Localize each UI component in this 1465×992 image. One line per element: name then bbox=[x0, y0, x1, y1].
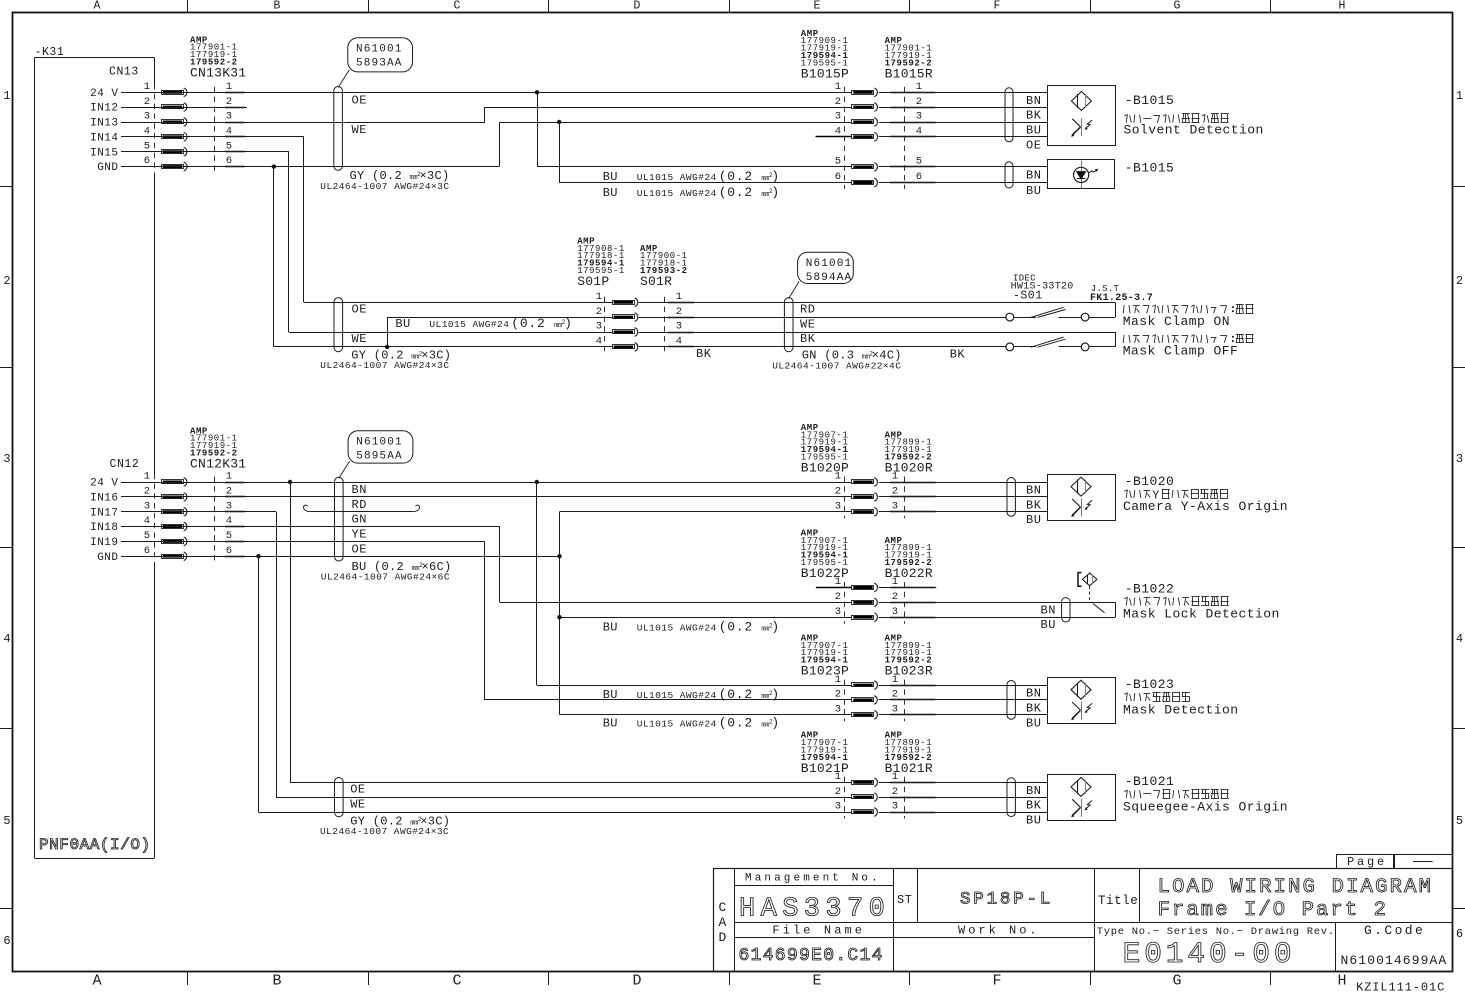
wire IN13 CN13-3 (WE core), jog up to B1015P-2 bbox=[121, 122, 485, 124]
svg-text:F: F bbox=[994, 0, 1001, 13]
svg-text:5: 5 bbox=[144, 530, 150, 542]
svg-text:1: 1 bbox=[226, 471, 232, 483]
wire GND CN13-6 to B1015P-3 via jog up bbox=[121, 166, 499, 168]
svg-text:3: 3 bbox=[835, 111, 841, 123]
svg-text:H: H bbox=[1337, 973, 1346, 990]
svg-text:WE: WE bbox=[800, 317, 815, 331]
wire B1022 BN to proximity switch bbox=[879, 602, 1098, 604]
balloon N61001 5894AA bbox=[789, 282, 799, 299]
wire wrap BK to switch2 bbox=[1089, 346, 1115, 348]
svg-text:FK1.25-3.7: FK1.25-3.7 bbox=[1090, 293, 1153, 304]
svg-text:D: D bbox=[632, 973, 641, 990]
svg-text:-B1023: -B1023 bbox=[1125, 677, 1175, 692]
svg-text:(0.2: (0.2 bbox=[719, 169, 753, 184]
svg-text:6: 6 bbox=[144, 155, 150, 167]
japanese: camera Y axis rough origin detection bbox=[1124, 490, 1127, 492]
svg-text:IN15: IN15 bbox=[90, 147, 118, 159]
svg-text:Management No.: Management No. bbox=[745, 873, 881, 885]
wire B1022P-1 stub bbox=[816, 587, 852, 589]
svg-text:BU: BU bbox=[1041, 618, 1056, 632]
wire GND CN12-6 bbox=[121, 556, 560, 558]
svg-text:UL2464-1007 AWG#24×6C: UL2464-1007 AWG#24×6C bbox=[321, 572, 450, 583]
svg-text:B1015P: B1015P bbox=[801, 66, 849, 81]
svg-text:3: 3 bbox=[676, 321, 682, 333]
svg-text:BK: BK bbox=[800, 332, 816, 346]
svg-text:BU: BU bbox=[1026, 124, 1041, 138]
svg-text:(0.2: (0.2 bbox=[719, 716, 753, 731]
svg-text:-K31: -K31 bbox=[35, 46, 65, 59]
japanese: mask clamp switch release bbox=[1123, 335, 1124, 343]
svg-text:BK: BK bbox=[1026, 702, 1042, 716]
svg-text:OE: OE bbox=[352, 542, 367, 556]
svg-text:RD: RD bbox=[800, 303, 815, 317]
svg-text:3: 3 bbox=[835, 704, 841, 716]
svg-text:3: 3 bbox=[835, 500, 841, 512]
svg-text:(0.2: (0.2 bbox=[719, 687, 753, 702]
svg-text:3: 3 bbox=[226, 111, 232, 123]
svg-text:File Name: File Name bbox=[772, 924, 865, 938]
svg-text:4: 4 bbox=[1456, 632, 1463, 646]
svg-text:UL1015 AWG#24: UL1015 AWG#24 bbox=[637, 188, 717, 199]
svg-text:3: 3 bbox=[3, 452, 10, 466]
title block outline bbox=[714, 869, 1453, 972]
svg-text:): ) bbox=[564, 316, 573, 331]
svg-text:4: 4 bbox=[226, 515, 232, 527]
svg-text:IN13: IN13 bbox=[90, 118, 118, 130]
svg-text:5895AA: 5895AA bbox=[356, 450, 403, 462]
svg-text:2: 2 bbox=[835, 591, 841, 603]
svg-text:-B1021: -B1021 bbox=[1125, 774, 1175, 789]
svg-text:1: 1 bbox=[226, 81, 232, 93]
cable shield oval B1021 right bbox=[1007, 778, 1015, 817]
sensor box B1015 (solvent detection) bbox=[1048, 86, 1116, 146]
title block verticals bbox=[734, 869, 736, 972]
junction 24V branch to B1023P-1 bbox=[535, 480, 539, 484]
svg-text:B1023P: B1023P bbox=[801, 664, 849, 679]
svg-text:6: 6 bbox=[916, 171, 922, 183]
wire IN18 CN12-4 drop to B1022P-2 bbox=[121, 526, 500, 528]
svg-text:HAS3370: HAS3370 bbox=[739, 895, 890, 925]
svg-text:2: 2 bbox=[916, 96, 922, 108]
svg-text:5: 5 bbox=[144, 140, 150, 152]
svg-text:BU: BU bbox=[1026, 716, 1041, 730]
svg-text:6: 6 bbox=[226, 155, 232, 167]
svg-text:F: F bbox=[992, 973, 1001, 990]
svg-text:BK: BK bbox=[1026, 799, 1042, 813]
svg-text:-B1015: -B1015 bbox=[1125, 161, 1175, 176]
wire IN14 CN13-4 drop to S01P-1 bbox=[121, 136, 304, 138]
svg-text:1: 1 bbox=[144, 81, 150, 93]
svg-text:614699E0.C14: 614699E0.C14 bbox=[739, 946, 884, 966]
svg-text:A: A bbox=[94, 0, 101, 13]
svg-text:GN: GN bbox=[352, 513, 367, 527]
svg-text:BN: BN bbox=[1026, 784, 1041, 798]
wire 24V CN13-1 bbox=[121, 92, 852, 94]
svg-text:BU: BU bbox=[603, 170, 618, 184]
svg-text:IN12: IN12 bbox=[90, 103, 118, 115]
svg-text:BK: BK bbox=[950, 347, 966, 361]
svg-text:3: 3 bbox=[835, 606, 841, 618]
wire IN19 CN12-5 drop to B1023P-2 bbox=[121, 541, 484, 543]
svg-text:LOAD WIRING DIAGRAM: LOAD WIRING DIAGRAM bbox=[1158, 876, 1434, 899]
svg-text:OE: OE bbox=[1026, 138, 1041, 152]
svg-text:1: 1 bbox=[3, 89, 10, 103]
svg-text:BU: BU bbox=[395, 317, 410, 331]
japanese: mask clamp switch fixed bbox=[1123, 305, 1124, 313]
svg-text:WE: WE bbox=[350, 797, 365, 811]
svg-text:S01R: S01R bbox=[640, 274, 672, 289]
svg-text:BU: BU bbox=[603, 186, 618, 200]
connector B1020P/R contacts bbox=[844, 477, 846, 519]
wire B1015P-4 OE stub bbox=[816, 136, 852, 138]
svg-text:2: 2 bbox=[835, 486, 841, 498]
svg-text:UL1015 AWG#24: UL1015 AWG#24 bbox=[637, 623, 717, 634]
svg-text:YE: YE bbox=[352, 528, 367, 542]
proximity actuator diamond B1022 bbox=[1078, 573, 1082, 587]
svg-text:N61001: N61001 bbox=[806, 258, 853, 270]
svg-text:2: 2 bbox=[144, 486, 150, 498]
svg-text:1: 1 bbox=[835, 81, 841, 93]
svg-text:4: 4 bbox=[144, 126, 150, 138]
svg-text:BU: BU bbox=[1026, 513, 1041, 527]
svg-text:5: 5 bbox=[835, 156, 841, 168]
svg-text:2: 2 bbox=[226, 96, 232, 108]
svg-text:4: 4 bbox=[835, 126, 841, 138]
svg-text:BN: BN bbox=[1041, 603, 1056, 617]
cable shield oval GN 4C (S01 right) bbox=[784, 298, 793, 352]
svg-text:C: C bbox=[452, 973, 461, 990]
svg-text:3: 3 bbox=[835, 801, 841, 813]
svg-text:1: 1 bbox=[835, 576, 841, 588]
connector S01P/R contacts bbox=[604, 297, 606, 354]
svg-text:2: 2 bbox=[144, 96, 150, 108]
svg-text:1: 1 bbox=[916, 81, 922, 93]
connector B1015P/R contacts bbox=[844, 87, 846, 189]
svg-text:UL2464-1007 AWG#22×4C: UL2464-1007 AWG#22×4C bbox=[772, 361, 901, 372]
svg-text:UL2464-1007 AWG#24×3C: UL2464-1007 AWG#24×3C bbox=[320, 181, 449, 192]
svg-text:CN13K31: CN13K31 bbox=[190, 66, 246, 81]
wires B1023R to sensor bbox=[879, 685, 1048, 687]
svg-text:Mask Lock Detection: Mask Lock Detection bbox=[1123, 607, 1280, 622]
svg-text:24 V: 24 V bbox=[90, 478, 118, 490]
svg-text:Mask Clamp ON: Mask Clamp ON bbox=[1123, 314, 1230, 329]
svg-text:Solvent Detection: Solvent Detection bbox=[1124, 123, 1264, 138]
svg-text:A: A bbox=[92, 973, 101, 990]
svg-text:B1022P: B1022P bbox=[801, 566, 849, 581]
svg-text:5: 5 bbox=[1456, 814, 1463, 828]
svg-text:D: D bbox=[719, 930, 727, 945]
japanese: mask presence detection bbox=[1124, 693, 1127, 695]
svg-text:Work No.: Work No. bbox=[958, 924, 1040, 938]
wire WE core to S01P-3 bbox=[289, 332, 612, 334]
row ticks right bbox=[1453, 186, 1465, 188]
svg-text:5: 5 bbox=[3, 814, 10, 828]
svg-text:A: A bbox=[719, 915, 727, 930]
svg-text:BN: BN bbox=[1026, 687, 1041, 701]
svg-text:1: 1 bbox=[835, 771, 841, 783]
svg-text:-B1015: -B1015 bbox=[1125, 93, 1175, 108]
japanese: mask clamp lock check bbox=[1124, 597, 1127, 599]
svg-text:3: 3 bbox=[596, 321, 602, 333]
connector CN13K31 contacts bbox=[214, 87, 216, 173]
svg-text:B1020P: B1020P bbox=[801, 461, 849, 476]
svg-text:1: 1 bbox=[144, 471, 150, 483]
svg-text:BU: BU bbox=[603, 717, 618, 731]
svg-text:C: C bbox=[719, 900, 727, 915]
svg-text:5: 5 bbox=[226, 530, 232, 542]
column ticks top bbox=[187, 0, 189, 13]
svg-text:BU: BU bbox=[603, 688, 618, 702]
connector CN12K31 contacts bbox=[214, 477, 216, 563]
svg-text:Frame I/O Part 2: Frame I/O Part 2 bbox=[1158, 899, 1388, 922]
svg-text:(0.2: (0.2 bbox=[719, 185, 753, 200]
svg-text:N610014699AA: N610014699AA bbox=[1341, 953, 1448, 968]
svg-text:BK: BK bbox=[1026, 498, 1042, 512]
wires S01R to switch bbox=[639, 302, 1115, 304]
wire B1022 BU wrap bbox=[879, 617, 1115, 619]
svg-text:1: 1 bbox=[1456, 89, 1463, 103]
svg-text:G: G bbox=[1172, 973, 1181, 990]
svg-text:5894AA: 5894AA bbox=[806, 272, 853, 284]
svg-text:E: E bbox=[812, 973, 821, 990]
wire S01P-2 from BU jumper bbox=[387, 317, 612, 319]
svg-text:IN17: IN17 bbox=[90, 507, 118, 519]
japanese: squeegee axis rough origin detection bbox=[1124, 790, 1127, 792]
svg-text:-B1022: -B1022 bbox=[1125, 581, 1175, 596]
balloon N61001 5895AA bbox=[339, 461, 350, 478]
svg-text:G: G bbox=[1174, 0, 1181, 13]
wire IN15 CN13-5 drop to S01P-3 bbox=[121, 151, 289, 153]
svg-text:OE: OE bbox=[352, 303, 367, 317]
svg-text:BK: BK bbox=[696, 347, 712, 361]
row ticks left bbox=[0, 186, 13, 188]
switch contact mask clamp ON bbox=[1006, 313, 1014, 321]
junction GND branch to B1021P-3 bbox=[256, 554, 260, 558]
svg-text:D: D bbox=[634, 0, 641, 13]
cable shield oval B1015 upper bbox=[1005, 88, 1013, 142]
svg-text:BN: BN bbox=[1026, 484, 1041, 498]
svg-text:6: 6 bbox=[144, 545, 150, 557]
svg-text:Camera Y-Axis Origin: Camera Y-Axis Origin bbox=[1123, 499, 1288, 514]
svg-text:1: 1 bbox=[892, 674, 898, 686]
svg-text:): ) bbox=[771, 716, 780, 731]
svg-text:3: 3 bbox=[144, 500, 150, 512]
svg-text:2: 2 bbox=[835, 689, 841, 701]
svg-text:BN: BN bbox=[352, 483, 367, 497]
svg-text:PNF0AA(I/O): PNF0AA(I/O) bbox=[39, 836, 151, 854]
column ticks bottom bbox=[187, 972, 189, 986]
svg-text:(0.2: (0.2 bbox=[719, 620, 753, 635]
svg-text:IN18: IN18 bbox=[90, 522, 118, 534]
svg-text:5893AA: 5893AA bbox=[356, 57, 403, 69]
svg-text:3: 3 bbox=[916, 111, 922, 123]
svg-text:B1021P: B1021P bbox=[801, 761, 849, 776]
svg-text:UL1015 AWG#24: UL1015 AWG#24 bbox=[429, 319, 509, 330]
svg-text:3: 3 bbox=[1456, 452, 1463, 466]
svg-text:-B1020: -B1020 bbox=[1125, 474, 1175, 489]
svg-text:CN12K31: CN12K31 bbox=[190, 457, 246, 472]
svg-text:OE: OE bbox=[352, 93, 367, 107]
svg-text:IN14: IN14 bbox=[90, 132, 118, 144]
svg-text:H: H bbox=[1339, 0, 1346, 13]
svg-text:1: 1 bbox=[676, 291, 682, 303]
svg-text:B1015R: B1015R bbox=[885, 66, 933, 81]
svg-text:1: 1 bbox=[835, 471, 841, 483]
svg-text:2: 2 bbox=[596, 306, 602, 318]
svg-text:1: 1 bbox=[892, 771, 898, 783]
svg-text:E: E bbox=[814, 0, 821, 13]
junction GND branch to S01P-4 bbox=[272, 164, 276, 168]
sensor box B1021 (squeegee axis origin) bbox=[1048, 775, 1116, 821]
svg-text:): ) bbox=[771, 185, 780, 200]
svg-text:4: 4 bbox=[144, 515, 150, 527]
cable shield oval BU 6C (CN12) bbox=[335, 477, 344, 561]
wire IN12 CN13-2 stub bbox=[121, 107, 247, 109]
svg-text:3: 3 bbox=[892, 801, 898, 813]
svg-text:IN19: IN19 bbox=[90, 537, 118, 549]
svg-text:5: 5 bbox=[226, 140, 232, 152]
svg-text:-S01: -S01 bbox=[1013, 289, 1043, 302]
svg-text:N61001: N61001 bbox=[356, 436, 403, 448]
svg-text:(0.2: (0.2 bbox=[511, 316, 545, 331]
cable shield oval B1022 bbox=[1062, 598, 1070, 622]
wire OE core to S01P-1 bbox=[304, 302, 612, 304]
unused GN core cut with curls bbox=[311, 511, 413, 513]
svg-text:BN: BN bbox=[1026, 168, 1041, 182]
svg-text:2: 2 bbox=[835, 96, 841, 108]
connector B1022P/R contacts bbox=[844, 582, 846, 624]
svg-text:2: 2 bbox=[892, 786, 898, 798]
svg-text:3: 3 bbox=[892, 500, 898, 512]
japanese: cleaning ekigire kenshutsu bbox=[1124, 114, 1127, 116]
svg-text:2: 2 bbox=[676, 306, 682, 318]
svg-text:Page: Page bbox=[1347, 855, 1387, 869]
svg-text:24 V: 24 V bbox=[90, 88, 118, 100]
svg-text:BU: BU bbox=[1026, 814, 1041, 828]
svg-text:C: C bbox=[454, 0, 461, 13]
svg-text:4: 4 bbox=[3, 632, 10, 646]
svg-text:Mask Clamp OFF: Mask Clamp OFF bbox=[1123, 344, 1239, 359]
svg-text:3: 3 bbox=[892, 606, 898, 618]
svg-text:3: 3 bbox=[226, 500, 232, 512]
svg-text:4: 4 bbox=[596, 336, 602, 348]
svg-text:1: 1 bbox=[892, 576, 898, 588]
svg-text:B: B bbox=[274, 0, 281, 13]
svg-text:OE: OE bbox=[350, 783, 365, 797]
svg-text:1: 1 bbox=[835, 674, 841, 686]
PLC I/O unit box -K31 bbox=[35, 57, 155, 59]
title block horizontals bbox=[734, 885, 894, 887]
svg-text:BU: BU bbox=[1026, 184, 1041, 198]
svg-text:BN: BN bbox=[1026, 94, 1041, 108]
svg-text:6: 6 bbox=[835, 171, 841, 183]
junction GND branch to B1015P-6 bbox=[557, 120, 561, 124]
svg-text:2: 2 bbox=[3, 274, 10, 288]
balloon N61001 5893AA bbox=[338, 70, 349, 88]
sensor box B1020 (camera Y-axis origin) bbox=[1048, 475, 1116, 521]
wires B1020R to sensor bbox=[879, 482, 1048, 484]
svg-text:GND: GND bbox=[97, 162, 118, 174]
svg-text:3: 3 bbox=[144, 111, 150, 123]
svg-text:KZIL111-01C: KZIL111-01C bbox=[1356, 981, 1445, 992]
wire GND core to S01P-4 bbox=[274, 346, 612, 348]
wires B1015R to sensor bbox=[879, 92, 1048, 94]
svg-text:IN16: IN16 bbox=[90, 493, 118, 505]
GND distribution vertical to B1020P-3/B1022P-3/B1023P-3 bbox=[559, 512, 561, 715]
indicator box B1015 (LED) bbox=[1048, 160, 1115, 189]
cable shield oval GY 3C (S01 left) bbox=[334, 298, 343, 352]
svg-text:E0140-00: E0140-00 bbox=[1123, 937, 1296, 971]
svg-text:1: 1 bbox=[892, 471, 898, 483]
wires B1021R to sensor bbox=[879, 782, 1048, 784]
svg-text:2: 2 bbox=[835, 786, 841, 798]
svg-text:WE: WE bbox=[352, 123, 367, 137]
sensor box B1023 (mask detection) bbox=[1048, 678, 1116, 724]
svg-text:B: B bbox=[272, 973, 281, 990]
svg-text:UL1015 AWG#24: UL1015 AWG#24 bbox=[637, 690, 717, 701]
junction BU jumper up bbox=[385, 345, 389, 349]
svg-text:Squeegee-Axis Origin: Squeegee-Axis Origin bbox=[1123, 800, 1288, 815]
page number box bbox=[1337, 855, 1395, 869]
svg-text:CN13: CN13 bbox=[109, 66, 139, 79]
svg-text:BK: BK bbox=[1026, 109, 1042, 123]
svg-text:S01P: S01P bbox=[577, 274, 609, 289]
svg-text:): ) bbox=[771, 169, 780, 184]
cable shield oval GY 3C (B1021 left) bbox=[335, 778, 344, 817]
proximity switch lever B1022 bbox=[1093, 604, 1105, 613]
cable shield oval B1023 bbox=[1007, 681, 1015, 720]
switch contact mask clamp OFF bbox=[1006, 343, 1014, 351]
wire IN16 CN12-2 to B1020P-2 bbox=[121, 496, 852, 498]
wire IN17 CN12-3 drop to B1021P-2 bbox=[121, 511, 276, 513]
svg-text:Title: Title bbox=[1098, 894, 1138, 908]
svg-text:ST: ST bbox=[897, 893, 912, 907]
wire wrap RD to switch1 bbox=[1089, 317, 1115, 319]
svg-text:): ) bbox=[771, 620, 780, 635]
svg-text:4: 4 bbox=[916, 126, 922, 138]
svg-text:): ) bbox=[771, 687, 780, 702]
svg-text:2: 2 bbox=[892, 591, 898, 603]
junction 24V branch to B1015P-5 bbox=[535, 90, 539, 94]
svg-text:G.Code: G.Code bbox=[1364, 923, 1425, 938]
svg-text:3: 3 bbox=[892, 704, 898, 716]
svg-text:2: 2 bbox=[1456, 274, 1463, 288]
svg-text:Mask Detection: Mask Detection bbox=[1123, 702, 1239, 717]
svg-text:RD: RD bbox=[352, 498, 367, 512]
cable shield oval GY 3C (CN13) bbox=[334, 87, 343, 171]
svg-text:CN12: CN12 bbox=[110, 458, 140, 471]
svg-text:UL2464-1007 AWG#24×3C: UL2464-1007 AWG#24×3C bbox=[320, 360, 449, 371]
svg-text:6: 6 bbox=[226, 545, 232, 557]
svg-text:UL1015 AWG#24: UL1015 AWG#24 bbox=[637, 719, 717, 730]
svg-text:6: 6 bbox=[1456, 927, 1463, 941]
svg-text:UL1015 AWG#24: UL1015 AWG#24 bbox=[637, 172, 717, 183]
svg-text:1: 1 bbox=[596, 291, 602, 303]
cable shield oval B1020 bbox=[1007, 478, 1015, 517]
connector B1021P/R contacts bbox=[844, 777, 846, 819]
svg-text:N61001: N61001 bbox=[356, 43, 403, 55]
wire 24V CN12-1 to B1020P-1 bbox=[121, 482, 852, 484]
svg-text:4: 4 bbox=[226, 126, 232, 138]
svg-text:BU: BU bbox=[603, 621, 618, 635]
svg-text:6: 6 bbox=[3, 934, 10, 948]
svg-text:WE: WE bbox=[352, 332, 367, 346]
svg-text:GND: GND bbox=[97, 552, 118, 564]
svg-text:SP18P-L: SP18P-L bbox=[960, 890, 1053, 910]
svg-text:UL2464-1007 AWG#24×3C: UL2464-1007 AWG#24×3C bbox=[320, 826, 449, 837]
connector B1023P/R contacts bbox=[844, 680, 846, 722]
junction 24V branch to B1021P-1 bbox=[288, 480, 292, 484]
